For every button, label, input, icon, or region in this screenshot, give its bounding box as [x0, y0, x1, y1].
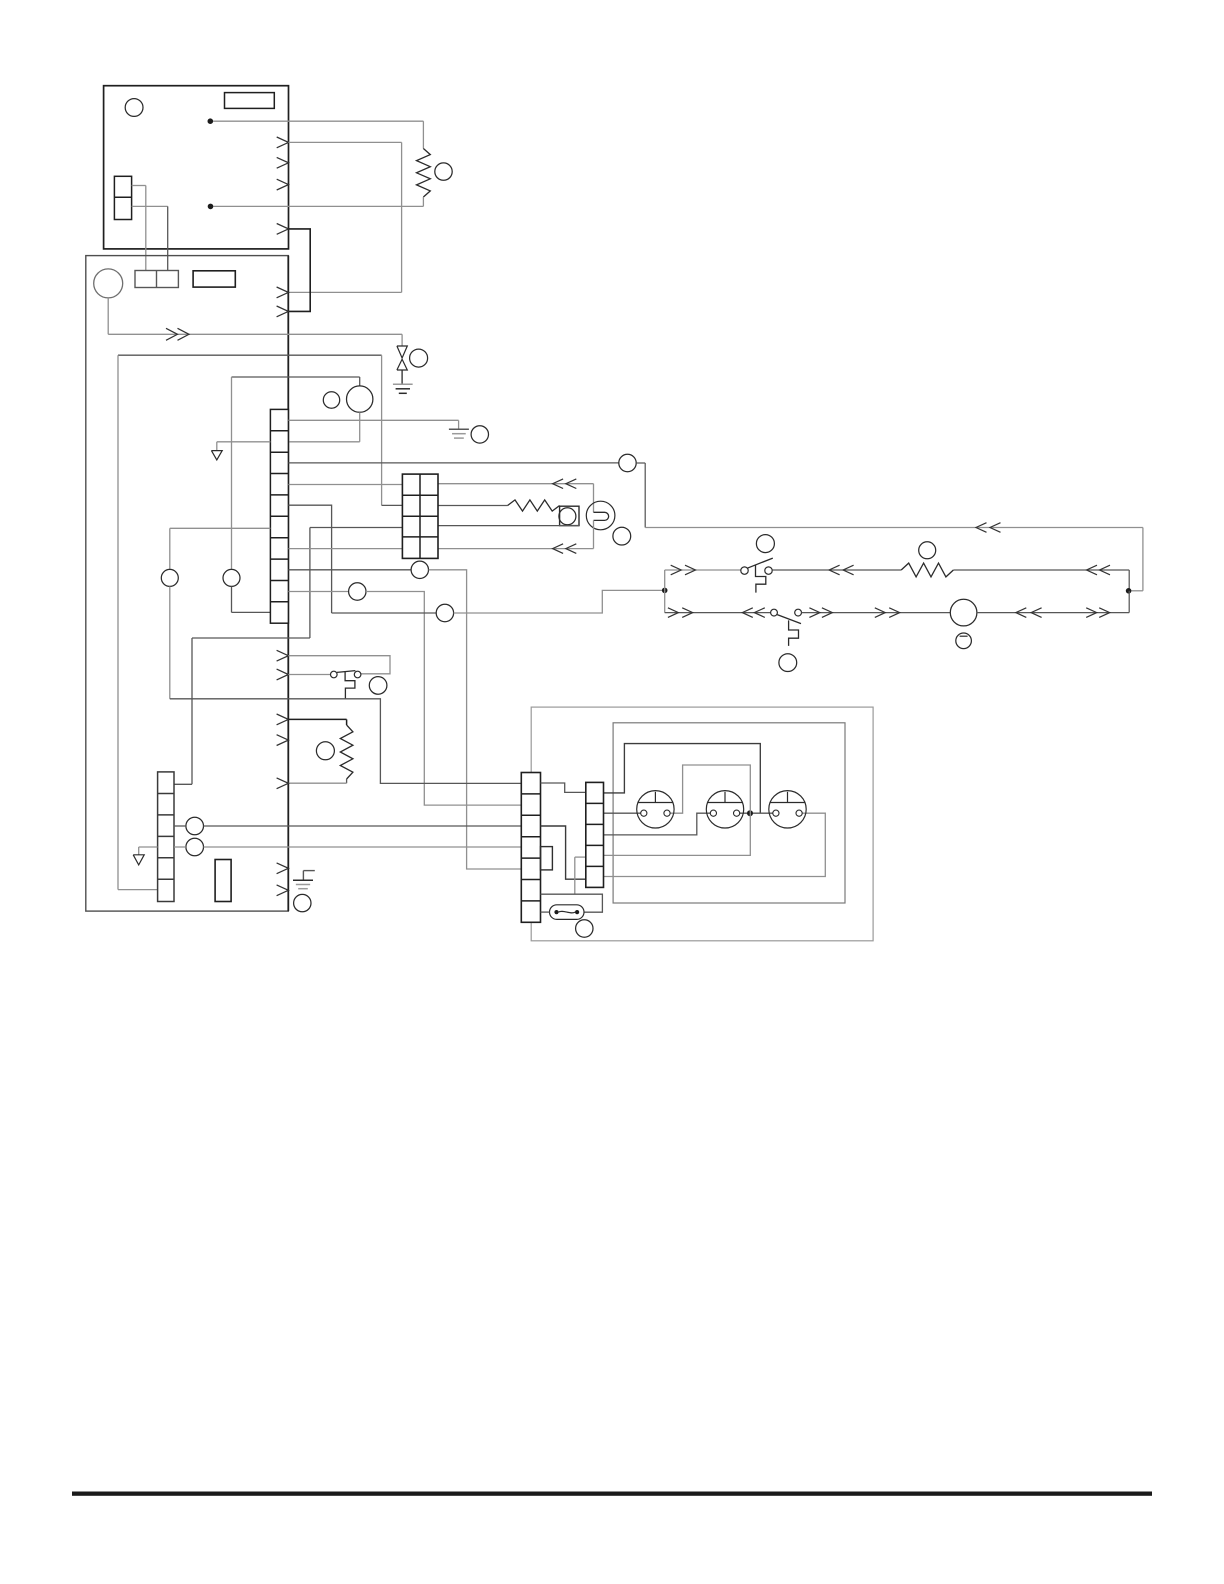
wire TB3-4 tap to fuse loop — [575, 857, 586, 894]
top feeder wire to right loop — [645, 528, 1143, 591]
resistor R4 (horizontal) — [508, 500, 560, 511]
label circle beside motor — [323, 392, 339, 408]
plug arrows upper-left — [671, 565, 696, 575]
indicator circle (lower) — [223, 569, 240, 586]
wire from coil to solenoid valve — [108, 298, 402, 346]
wire terminal-8 continues down to TB2-5 — [429, 570, 522, 869]
plug arrows lower-left — [668, 608, 765, 618]
wire terminal 6 to fan circle F1 — [170, 528, 271, 569]
resistor R3 (horizontal) — [901, 563, 953, 577]
wire bracket from A1-4 to B-2 — [288, 229, 310, 312]
fan circle F1 — [161, 569, 178, 586]
junction node J3 — [747, 810, 753, 816]
safety switch S3 thermal element — [789, 620, 799, 646]
connector pin arrow B-6b — [277, 778, 289, 789]
wire TB3-1 over fan motors — [604, 744, 761, 814]
plug arrows on top feeder — [976, 523, 1001, 533]
junction node J2 — [1126, 588, 1132, 594]
label circle beside compressor — [613, 527, 631, 545]
upper branch wire left — [665, 569, 741, 571]
connector pin arrow A1-1 — [277, 137, 289, 148]
wire down to indicator circle — [231, 377, 233, 569]
wire terminal-9 continues down to TB2-2 — [366, 592, 521, 806]
wire valve to ground — [401, 370, 403, 384]
long wire circle CB to TB2-4 — [204, 846, 522, 848]
compressor crankcase heater loop — [594, 512, 609, 520]
wire terminal 5 down-over to low voltage circle — [288, 505, 331, 613]
pressure switch S2 thermal element — [756, 565, 766, 593]
relay block K2 (2x4 cells) — [402, 474, 438, 558]
lower branch wire middle — [802, 612, 951, 614]
chassis arrow symbol (down triangle) — [211, 451, 222, 460]
resistor R1 (vertical) — [417, 149, 431, 198]
upper branch wire right — [953, 570, 1129, 591]
plug arrows lower-right — [1016, 608, 1110, 618]
terminal block TB0 (two cells) — [135, 271, 178, 288]
node on A1 (lower test point) — [208, 204, 214, 210]
label circle below S3 — [779, 654, 797, 672]
wire FM3 to TB3-5 — [604, 813, 826, 876]
capacitor box with circle — [559, 506, 579, 525]
wire R2 bottom to connector arrow B-6b — [288, 779, 346, 783]
terminal strip TB1 (10 cells) — [270, 409, 288, 623]
wire B-3 around to switch S1 right contact — [288, 656, 390, 674]
limit switch S1 thermal element — [345, 672, 355, 699]
component rectangle near stack — [215, 860, 231, 902]
wire B-4 to switch S1 left contact — [288, 674, 330, 676]
wire stack-3 to circle CA — [174, 825, 186, 827]
fan motor FM2 — [706, 791, 743, 828]
wire relay row3 to capacitor box — [438, 525, 579, 527]
wire from upper test point to resistor R1 — [213, 121, 423, 148]
unit cabinet box B — [86, 256, 288, 912]
plug arrows lower-middle — [809, 608, 899, 618]
condensing unit outer box D — [531, 707, 873, 941]
label circle beside top-right ground — [471, 426, 488, 443]
fuse loop wire TB2-6 — [541, 894, 603, 912]
fuse FU1 (cartridge) — [550, 905, 585, 920]
connector pin arrow B-4 — [277, 669, 289, 680]
terminal strip TB3 (5 cells) — [586, 782, 604, 887]
fan motor FM3 — [769, 791, 806, 828]
label circle beside valve — [410, 349, 428, 367]
wire terminal 8 to right side — [288, 569, 411, 571]
heater resistor R2 (vertical) — [340, 725, 353, 779]
plug arrows upper-right — [1087, 565, 1111, 575]
wire FM1 over FM2 to TB3-4 — [604, 765, 751, 855]
wire terminal 1 to ground — [288, 420, 458, 429]
label circle above S2 — [756, 535, 774, 553]
plug arrows on row4 wire — [553, 544, 577, 554]
connector tab on TB2 — [541, 847, 553, 870]
wire fuse to TB2-7 — [541, 911, 550, 913]
cabinet right-side harness line — [287, 256, 289, 912]
wire indicator to terminal 10 — [232, 586, 271, 612]
page footer rule — [72, 1492, 1152, 1496]
connector pin arrow A1-3 — [277, 179, 289, 190]
wire compressor return — [438, 520, 594, 548]
inline connector arrows on valve wire — [166, 328, 189, 340]
safety switch S3 contacts — [771, 609, 802, 616]
label circle beside R1 — [435, 163, 452, 180]
compressor contactor coil circle — [94, 269, 123, 298]
wire TB2-1 to TB3-1 jog — [541, 783, 586, 792]
wire fan motor terminal row — [740, 812, 773, 814]
component rectangle in cabinet — [193, 271, 235, 287]
inline circle on terminal-8 wire — [411, 561, 428, 578]
condensing unit inner box — [613, 723, 845, 903]
lower branch wire right — [977, 591, 1129, 613]
connector pin arrow B-5 — [277, 714, 289, 725]
control board box A1 — [104, 86, 289, 249]
mounting hole circle on A1 — [125, 99, 143, 117]
chassis arrow symbol lower (down triangle) — [133, 855, 144, 865]
low voltage wire continues to junction — [454, 590, 662, 613]
ground at cabinet corner — [293, 880, 313, 888]
fan motor FM1 — [637, 791, 674, 828]
ground at top right — [449, 429, 469, 438]
wire from K1 lower contact down to terminal block — [132, 206, 168, 270]
wire from K1 upper contact down to terminal block — [132, 186, 146, 271]
pressure switch S2 lever — [747, 558, 773, 568]
wire terminal 7 to relay row4 — [288, 548, 402, 550]
label circle below corner ground — [294, 894, 311, 911]
safety switch S3 lever — [777, 615, 801, 624]
inline circle on low voltage wire — [436, 604, 453, 621]
connector pin arrow A1-2 — [277, 157, 289, 168]
junction node J1 — [662, 588, 668, 594]
label circle below fuse — [576, 920, 593, 937]
inline circle on terminal-9 wire — [349, 583, 366, 600]
low voltage wire to right branch — [332, 612, 437, 614]
limit switch S1 contacts — [331, 671, 361, 678]
pressure switch S2 contacts — [741, 567, 772, 574]
wire compressor start winding drop — [593, 484, 595, 513]
wire relay row3 riser to connector stack — [174, 638, 310, 784]
wire relay row2 to resistor R4 — [438, 505, 508, 507]
heater loop wire from F1 to TB2-1 — [170, 699, 522, 784]
wire TB3-3 to fan motor FM2 — [604, 813, 711, 835]
solenoid valve V1 — [397, 346, 407, 370]
upper branch wire middle — [772, 569, 901, 571]
label circle beside R2 — [316, 742, 334, 760]
wire TB2-3 down to TB3-5 side — [541, 826, 586, 879]
connector pin arrow B-7 — [277, 863, 289, 874]
wire terminal 3 continues to top feeder — [636, 463, 645, 528]
wire loop from A1-1 to B-1 — [288, 142, 401, 292]
connector stack CS (6 cells) — [158, 772, 174, 902]
wire TB3-2 to fan motor FM1 — [604, 812, 641, 814]
connector pin arrow B-2 — [277, 306, 289, 317]
wire stack-4 to circle CB — [174, 846, 186, 848]
connector pin arrow A1-4 — [277, 224, 289, 235]
wire resistor R1 bottom to lower test point — [213, 197, 423, 206]
label circle above R3 — [919, 542, 936, 559]
lower branch wire left — [665, 612, 771, 614]
wire terminal 9 to right side — [288, 591, 348, 593]
wire terminal 4 to relay row1 — [288, 484, 402, 486]
plug arrows upper-middle — [829, 565, 854, 575]
blower motor M (large circle) — [347, 386, 373, 412]
wire relay row1 to compressor plug — [438, 483, 594, 485]
connector pin arrow B-6 — [277, 735, 289, 746]
indicator circle CB — [186, 838, 204, 856]
wire motor bottom to terminal 2 — [288, 412, 359, 442]
compressor circle CP1 (dashed outline look) — [586, 501, 615, 530]
wire riser to relay row3 — [310, 528, 403, 639]
node on A1 (upper test point) — [208, 118, 214, 124]
wire from blower motor top — [232, 377, 360, 386]
connector pin arrow B-1 — [277, 287, 289, 298]
long wire terminal 3 to right branch — [288, 462, 618, 464]
connector pin arrow B-3 — [277, 650, 289, 661]
indicator circle CA — [186, 817, 204, 835]
ground tap hook at cabinet corner — [303, 871, 314, 880]
wire terminal 2 to chassis arrow — [217, 442, 271, 451]
component rectangle on A1 — [225, 93, 275, 109]
drier/motor circle MC — [950, 599, 977, 626]
connector pin arrow B-8 — [277, 885, 289, 896]
cabinet inner left wire down to connector stack — [118, 355, 158, 889]
wire F1 down to heater loop — [169, 586, 171, 698]
label circle beside S1 — [369, 677, 387, 695]
plug arrows on row1 wire — [553, 479, 577, 489]
relay block K1 on A1 (two cells) — [114, 176, 131, 219]
ground below valve — [393, 384, 413, 393]
wire stack-4 to chassis arrow — [139, 847, 158, 855]
limit switch S1 lever — [337, 671, 355, 673]
wire J1 risers — [664, 570, 666, 613]
inline circle on terminal-3 wire — [619, 454, 636, 471]
terminal strip TB2 (7 cells) — [521, 773, 540, 923]
wire bus from cabinet corner to relay row2 — [118, 355, 402, 505]
sight glass circle below MC — [956, 633, 972, 649]
wire B-5 to heater resistor R2 — [288, 719, 346, 725]
long wire circle CA to TB2-3 — [204, 825, 522, 827]
